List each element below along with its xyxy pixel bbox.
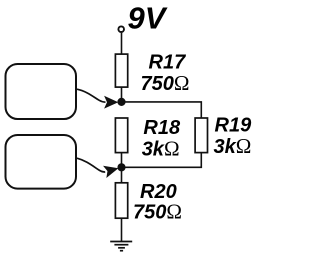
resistor R18 [115,118,127,153]
svg-text:3kΩ: 3kΩ [142,137,180,161]
wire R17 to node A [121,87,123,102]
svg-text:9V: 9V [128,1,168,36]
callout box 1 [6,64,77,119]
node B junction dot [118,164,125,171]
terminal 9V supply [118,26,124,32]
wire node B to R20 [121,167,123,183]
callout arrow 1 to node A [77,89,118,108]
callout box 2 [6,135,77,189]
ground [110,242,132,251]
wire terminal to R17 [121,33,123,54]
svg-text:750Ω: 750Ω [133,200,182,224]
wire R20 to ground [121,218,123,241]
resistor R17 [115,54,127,87]
resistor R19 [195,118,207,153]
node A junction dot [118,99,125,106]
svg-text:3kΩ: 3kΩ [214,134,252,158]
callout arrow 2 to node B [77,158,120,178]
resistor R20 [115,183,127,218]
wire R18 to node B [121,153,123,168]
wire node A to R19 branch [122,102,202,118]
wire R19 to node B [122,153,202,168]
svg-text:750Ω: 750Ω [141,71,190,95]
